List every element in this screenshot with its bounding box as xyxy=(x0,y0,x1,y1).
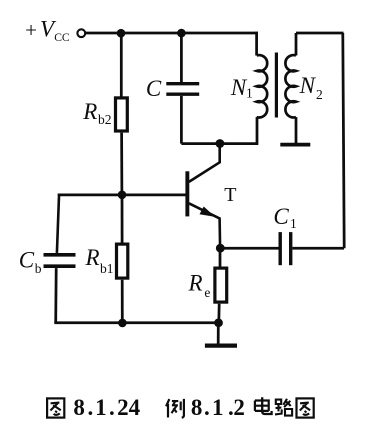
svg-text:2: 2 xyxy=(117,395,129,420)
caption xyxy=(47,395,314,420)
svg-text:1: 1 xyxy=(95,395,107,420)
wire Cb to bottom rail xyxy=(54,268,57,323)
wire right side vertical xyxy=(343,33,344,248)
node ground junction xyxy=(214,318,223,327)
wire left rail Rb2 to base node xyxy=(120,133,123,195)
wire bottom rail xyxy=(54,321,218,324)
svg-text:C: C xyxy=(273,204,289,229)
caption hanzi lu xyxy=(275,399,292,416)
svg-text:T: T xyxy=(224,184,236,206)
svg-text:1: 1 xyxy=(246,86,253,101)
label N2 xyxy=(299,73,323,102)
resistor Rb1 xyxy=(117,244,128,278)
caption number 8.1.24 xyxy=(73,395,140,420)
svg-text:.: . xyxy=(109,395,115,420)
svg-text:b1: b1 xyxy=(100,261,114,276)
wire Re bottom lead xyxy=(217,304,220,323)
wire Re top lead xyxy=(219,248,222,266)
wire C branch lower xyxy=(180,96,183,144)
svg-text:1: 1 xyxy=(212,395,224,420)
svg-text:R: R xyxy=(85,245,100,270)
wire left rail Rb1 to bottom rail xyxy=(121,280,124,323)
wire N2 to ground xyxy=(295,117,298,143)
node top of Rb2 rail xyxy=(117,29,126,38)
caption hanzi li xyxy=(166,399,184,418)
svg-text:R: R xyxy=(188,271,203,296)
svg-text:CC: CC xyxy=(54,31,70,44)
wire emitter to C1 xyxy=(220,247,278,250)
label Cb xyxy=(19,248,42,277)
wire C1 right xyxy=(292,247,344,250)
wire base horizontal xyxy=(58,194,186,197)
terminal +Vcc xyxy=(77,29,85,37)
label Rb1 xyxy=(85,245,114,276)
wire N1 top lead xyxy=(255,32,258,56)
node base xyxy=(118,191,127,200)
transformer core xyxy=(275,53,278,118)
resistor Rb2 xyxy=(116,98,128,131)
svg-text:2: 2 xyxy=(233,395,245,420)
wire C branch upper xyxy=(180,33,183,82)
capacitor Cb xyxy=(44,255,76,266)
node emitter junction xyxy=(216,244,225,253)
wire N1 bottom lead xyxy=(256,117,259,145)
caption hanzi tu 2 xyxy=(297,398,314,417)
wire tank bottom xyxy=(181,142,258,145)
caption number 8.1.2 xyxy=(191,395,245,420)
transistor T emitter arrow xyxy=(200,207,216,217)
svg-text:.: . xyxy=(88,395,94,420)
wire Cb branch down xyxy=(57,194,59,253)
svg-text:4: 4 xyxy=(129,395,141,420)
svg-text:8: 8 xyxy=(73,395,85,420)
svg-text:e: e xyxy=(204,285,210,300)
label N1 xyxy=(230,75,253,101)
node Rb1 bottom xyxy=(118,319,127,328)
transistor T base bar xyxy=(185,171,189,216)
capacitor C xyxy=(166,84,199,95)
svg-text:+: + xyxy=(25,18,37,42)
inductor N1 xyxy=(257,55,268,117)
svg-text:N: N xyxy=(299,73,317,98)
label +Vcc xyxy=(25,17,70,44)
svg-text:R: R xyxy=(82,99,97,124)
wire left rail base node to Rb1 xyxy=(121,195,124,243)
svg-text:C: C xyxy=(19,248,35,273)
caption hanzi tu 1 xyxy=(47,398,64,417)
inductor N2 xyxy=(285,55,296,117)
wire N2 top lead xyxy=(295,33,298,56)
capacitor C1 xyxy=(280,232,291,265)
wire N2 loop top xyxy=(296,32,344,35)
ground under Re xyxy=(205,344,237,348)
svg-text:8: 8 xyxy=(191,395,203,420)
label Rb2 xyxy=(82,99,111,127)
wire ground stub xyxy=(217,323,220,344)
transistor T collector lead xyxy=(189,144,220,182)
svg-text:1: 1 xyxy=(290,216,297,231)
svg-text:.: . xyxy=(204,395,210,420)
node collector junction xyxy=(216,139,225,148)
label Re xyxy=(188,271,211,301)
label C1 xyxy=(273,204,296,231)
svg-text:C: C xyxy=(146,76,162,101)
transistor T emitter lead xyxy=(189,203,220,248)
svg-text:b2: b2 xyxy=(98,112,112,127)
node top of C branch xyxy=(177,29,186,38)
wire left rail upper xyxy=(120,33,123,97)
ground under N2 xyxy=(280,143,310,147)
wire top rail xyxy=(86,32,258,35)
svg-text:2: 2 xyxy=(316,87,323,102)
resistor Re xyxy=(215,268,227,302)
svg-text:b: b xyxy=(35,261,42,276)
caption hanzi dian xyxy=(255,397,272,414)
